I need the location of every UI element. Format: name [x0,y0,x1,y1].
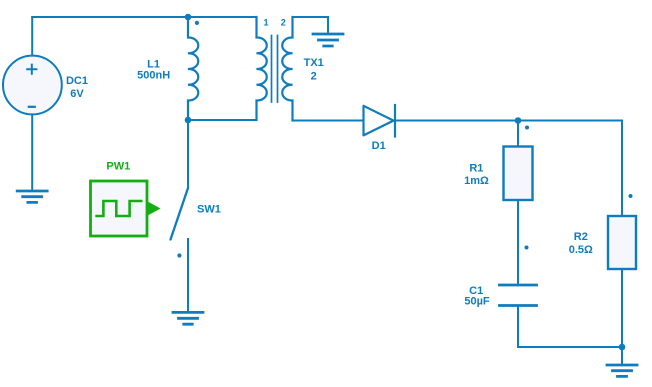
wire C1 to bottom rail [518,306,622,348]
svg-text:SW1: SW1 [197,204,221,216]
svg-text:PW1: PW1 [106,160,130,172]
label C1 [464,285,490,308]
svg-text:2: 2 [311,70,317,82]
wire diode to R2 corner [395,120,622,122]
capacitor C1 [500,285,537,306]
pin 2 label [281,18,286,28]
junction bottom / L1 [185,117,192,124]
inductor L1 [188,17,198,120]
wire R2 bottom [621,269,623,347]
wire DC1 top stem [31,17,33,56]
pin 1 label [263,18,268,28]
svg-text:DC1: DC1 [66,75,88,87]
wire TX1 pin2 to ground [293,17,329,34]
svg-text:R1: R1 [469,162,483,174]
svg-text:TX1: TX1 [304,57,324,69]
wire top corner to R2 [621,121,623,217]
label TX1 [304,57,324,82]
polarity dot L1 [195,21,199,25]
resistor R2 [608,216,636,269]
wire DC1 bottom to ground [31,114,33,191]
junction bottom rail [619,344,626,351]
switch SW1 bottom post [187,239,189,312]
svg-text:1mΩ: 1mΩ [464,175,489,187]
label DC1 [66,75,88,100]
wire junction to R1 [517,121,519,147]
wire R1 to C1 [517,200,519,285]
marker dot C1 [525,246,529,250]
wire TX1 secondary to diode [293,120,364,122]
junction top rail / L1 [185,14,192,21]
wire to ground bottom right [621,347,623,365]
ground (top right) [313,34,343,46]
transformer TX1 primary winding [257,17,267,120]
svg-text:500nH: 500nH [137,69,170,81]
switch marker dot [177,253,181,257]
label R1 [464,162,489,187]
label D1 [372,140,386,152]
resistor R1 [504,147,533,201]
wire primary bottom [188,119,257,121]
svg-text:50µF: 50µF [464,296,490,308]
transformer TX1 core [272,36,278,103]
ground (below switch) [173,312,203,324]
diode D1 [364,105,396,137]
marker dot R1 [525,126,529,130]
svg-text:0.5Ω: 0.5Ω [569,244,593,256]
svg-text:R2: R2 [574,231,588,243]
label PW1 [106,160,130,172]
label R2 [569,231,593,256]
svg-text:2: 2 [281,18,286,28]
dc source DC1 [3,56,62,115]
marker dot R2 [629,194,633,198]
label L1 [137,59,170,82]
wire switch top [187,120,189,188]
svg-text:D1: D1 [372,140,386,152]
wire top rail DC1 to TX1 pin1 [32,16,256,18]
switch SW1 blade [171,188,189,240]
junction at R1 top [515,117,522,124]
label SW1 [197,204,221,216]
transformer TX1 secondary winding [282,17,292,121]
pulse source PW1 [91,181,160,236]
svg-text:6V: 6V [70,88,84,100]
ground (bottom right) [607,365,637,376]
ground (left, below DC1) [17,191,47,202]
svg-text:1: 1 [263,18,268,28]
